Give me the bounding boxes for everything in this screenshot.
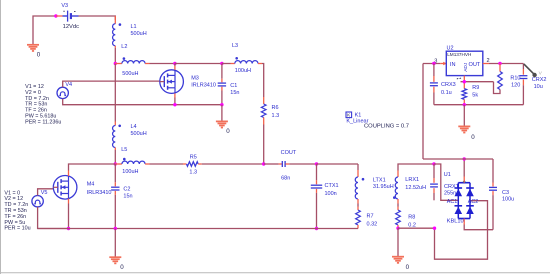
pulse source V5 — [32, 190, 48, 207]
wire M3 drain node to C1 node — [175, 63, 222, 65]
wire ADJ node rail — [461, 81, 494, 83]
svg-text:500uH: 500uH — [131, 31, 147, 37]
wire R5 to R6 node — [202, 163, 264, 165]
svg-text:R5: R5 — [190, 155, 197, 161]
inductor LTX1 31.95uH — [355, 177, 393, 199]
resistor R10 120 — [494, 64, 521, 94]
svg-text:0: 0 — [226, 128, 230, 135]
wire ADJ pin — [463, 76, 465, 82]
wire LRX1 top bar — [398, 164, 434, 171]
svg-text:10u: 10u — [534, 84, 543, 90]
junction AC2 loop corner — [433, 227, 436, 230]
svg-text:R10: R10 — [510, 76, 520, 82]
svg-text:CRX3: CRX3 — [441, 82, 456, 88]
junction C1 top — [220, 62, 223, 65]
svg-text:CRX2: CRX2 — [532, 77, 547, 83]
capacitor CRX1 255n — [430, 164, 459, 200]
junction R8 bottom — [396, 227, 399, 230]
svg-text:IRLR3410: IRLR3410 — [87, 190, 112, 196]
wire regulator input drop — [422, 64, 424, 160]
junction C1 bottom rail — [220, 103, 223, 106]
junction bridge plus node — [463, 157, 466, 160]
wire bus1 down to L4 — [114, 64, 116, 122]
ground 0 regulator — [458, 126, 475, 140]
svg-text:R7: R7 — [367, 214, 374, 220]
ground 0 at bus3 — [109, 257, 124, 271]
wire bridge DC+ pin — [463, 159, 465, 183]
ground 0 under C1 — [216, 121, 230, 135]
wire L1 to node bus1 — [114, 48, 116, 64]
svg-text:100n: 100n — [325, 191, 337, 197]
wire DC plus rail — [423, 158, 493, 160]
junction M4 source on bus3 — [67, 227, 70, 230]
svg-text:V4: V4 — [65, 82, 72, 88]
wire bus2 corner down to LTX1 — [357, 164, 359, 177]
coupling K1 K_Linear — [346, 112, 409, 130]
wire V5 minus to bus3 — [38, 207, 69, 229]
junction ADJ node — [463, 80, 466, 83]
wire V4 minus to source rail — [63, 99, 222, 105]
svg-text:U2: U2 — [447, 45, 454, 51]
svg-text:M4: M4 — [87, 182, 95, 188]
svg-text:K1: K1 — [355, 112, 362, 118]
svg-text:C1: C1 — [230, 83, 237, 89]
capacitor COUT 68n — [279, 150, 297, 181]
svg-text:OUT: OUT — [469, 62, 481, 68]
svg-text:0: 0 — [37, 52, 41, 59]
svg-text:U1: U1 — [444, 172, 451, 178]
resistor R7 0.32 — [356, 210, 378, 229]
svg-text:L2: L2 — [121, 44, 127, 50]
svg-text:100uH: 100uH — [122, 169, 138, 175]
wire M4 drain to bus2 — [69, 164, 116, 176]
wire battery to top of L1 — [79, 16, 116, 20]
junction L2/L4 node on bus1 — [114, 62, 117, 65]
wire M3 drain — [174, 64, 176, 70]
battery V3 12Vdc — [56, 3, 79, 30]
wire bus3 to ground — [114, 229, 116, 258]
inductor L5 100uH — [115, 147, 149, 175]
junction L5/C2 node on bus2 — [114, 162, 117, 165]
wire to regulator ground — [463, 105, 465, 127]
capacitor CTX1 100n — [311, 164, 339, 229]
capacitor C3 100u — [489, 159, 514, 230]
svg-text:100uH: 100uH — [235, 68, 251, 74]
svg-text:1.3: 1.3 — [272, 113, 280, 119]
svg-text:LM137HVH: LM137HVH — [447, 52, 471, 57]
svg-text:0.1u: 0.1u — [441, 90, 452, 96]
junction R9 bottom ground — [463, 103, 466, 106]
svg-text:68n: 68n — [281, 175, 290, 181]
capacitor CRX2 10u — [519, 64, 546, 105]
svg-text:0: 0 — [406, 264, 410, 271]
svg-text:V5: V5 — [41, 190, 48, 196]
svg-text:IRLR3410: IRLR3410 — [191, 83, 216, 89]
voltage probe marker — [524, 64, 543, 77]
svg-text:L1: L1 — [131, 24, 137, 30]
svg-text:0: 0 — [120, 264, 124, 271]
V5 parameter text — [4, 190, 30, 231]
junction C2 bottom bus3 — [114, 227, 117, 230]
wire bridge DC- to C3 bottom — [464, 219, 493, 230]
transistor M4 IRLR3410 — [53, 176, 111, 200]
junction M3 source rail — [173, 103, 176, 106]
svg-text:C3: C3 — [502, 190, 509, 196]
wire to COUT — [264, 163, 279, 165]
inductor LRX1 12.52uH — [393, 171, 426, 200]
ground 0 under R8 — [392, 257, 410, 271]
wire R8 node loop to AC2 — [398, 201, 488, 260]
svg-text:1.3: 1.3 — [189, 170, 197, 176]
junction M3 drain — [173, 62, 176, 65]
wire R8 to ground — [397, 228, 399, 256]
svg-text:PER = 11.236u: PER = 11.236u — [25, 119, 61, 125]
svg-text:V3: V3 — [61, 3, 68, 9]
resistor R5 1.3 — [183, 155, 202, 176]
capacitor C1 15n — [218, 64, 240, 105]
svg-text:15n: 15n — [230, 90, 239, 96]
capacitor CRX3 0.1u — [430, 64, 461, 105]
svg-text:AC1: AC1 — [447, 199, 458, 205]
wire from ground corner to battery V3 — [33, 16, 56, 45]
wire regulator bottom rail — [434, 104, 524, 106]
bus3 wire R7 to V5 — [38, 228, 358, 230]
svg-text:12.52uH: 12.52uH — [405, 185, 426, 191]
wire COUT to CTX1 node — [289, 163, 316, 165]
svg-text:IN: IN — [450, 62, 456, 68]
wire CTX1 node to LTX1 corner — [317, 163, 359, 165]
svg-text:0: 0 — [471, 134, 475, 141]
junction CRX3 top — [432, 62, 435, 65]
junction CTX1 bottom — [315, 227, 318, 230]
wire LTX1 to R7 — [357, 199, 359, 210]
svg-text:ADJ: ADJ — [463, 62, 469, 72]
svg-text:AC2: AC2 — [468, 199, 479, 205]
junction R6 bottom on bus2 — [262, 162, 265, 165]
inductor L3 100uH — [231, 43, 263, 74]
wire L3 corner down to R6 — [262, 64, 264, 98]
resistor R6 1.3 — [261, 97, 279, 125]
svg-text:L3: L3 — [232, 43, 238, 49]
svg-text:PER = 10u: PER = 10u — [4, 226, 30, 232]
inductor L2 500uH — [115, 44, 149, 77]
junction R10 top — [498, 62, 501, 65]
svg-text:L5: L5 — [121, 147, 127, 153]
wire pin3 rail — [423, 59, 447, 66]
junction at battery left pin — [54, 14, 57, 17]
svg-text:CRX1: CRX1 — [444, 184, 459, 190]
resistor R9 5k — [462, 82, 479, 105]
svg-text:0.32: 0.32 — [367, 222, 378, 228]
svg-text:12Vdc: 12Vdc — [63, 24, 80, 30]
inductor L4 500uH — [113, 122, 147, 151]
wire L5 to R5 — [150, 163, 184, 165]
svg-text:KBL10: KBL10 — [447, 219, 464, 225]
wire LRX1 to R8 — [397, 199, 399, 210]
svg-text:R6: R6 — [272, 105, 279, 111]
svg-text:15n: 15n — [123, 193, 132, 199]
wire pin2 rail — [483, 58, 524, 64]
svg-text:5k: 5k — [472, 93, 478, 99]
wire R6 to bus2 — [263, 125, 265, 165]
svg-text:500uH: 500uH — [122, 71, 138, 77]
svg-text:L4: L4 — [131, 124, 137, 130]
svg-text:R9: R9 — [472, 85, 479, 91]
svg-text:K: K — [347, 113, 351, 118]
wire M3 source — [174, 93, 176, 104]
wire C1 node to L3 — [222, 63, 231, 65]
capacitor C2 15n — [111, 164, 132, 229]
wire C1 to ground — [221, 105, 223, 122]
svg-text:CTX1: CTX1 — [325, 183, 339, 189]
svg-text:LRX1: LRX1 — [405, 177, 419, 183]
inductor L1 500uH — [113, 16, 147, 48]
svg-text:2: 2 — [487, 58, 490, 64]
svg-text:LTX1: LTX1 — [373, 178, 386, 184]
V4 parameter text — [25, 84, 61, 125]
svg-text:100u: 100u — [502, 197, 514, 203]
svg-text:C2: C2 — [123, 186, 130, 192]
regulator U2 LM137HVH — [446, 45, 483, 75]
junction CRX1 node — [432, 162, 435, 165]
svg-text:500uH: 500uH — [131, 131, 147, 137]
svg-text:120: 120 — [511, 83, 520, 89]
wire M4 source to bus3 — [68, 199, 70, 229]
svg-text:V: V — [539, 71, 543, 77]
svg-text:31.95uH: 31.95uH — [373, 184, 394, 190]
svg-text:COUPLING = 0.7: COUPLING = 0.7 — [364, 124, 409, 130]
wire node to AC1 drop — [434, 164, 458, 200]
svg-text:M3: M3 — [191, 76, 199, 82]
bridge rectifier U1 KBL10 — [444, 172, 479, 225]
ground 0 under V3 — [27, 45, 41, 59]
transistor M3 IRLR3410 — [160, 70, 216, 94]
wire L4 to bus2 node — [114, 150, 116, 164]
svg-text:255n: 255n — [444, 190, 456, 196]
pulse source V4 — [57, 82, 72, 99]
svg-text:R8: R8 — [408, 215, 415, 221]
wire V5 plus to M4 gate — [38, 189, 54, 196]
wire L2 to M3 drain node — [150, 63, 175, 65]
svg-text:COUT: COUT — [281, 150, 297, 156]
resistor R8 0.2 — [396, 210, 416, 229]
wire V4 plus to M3 gate — [63, 81, 160, 87]
junction CTX1 top — [315, 162, 318, 165]
